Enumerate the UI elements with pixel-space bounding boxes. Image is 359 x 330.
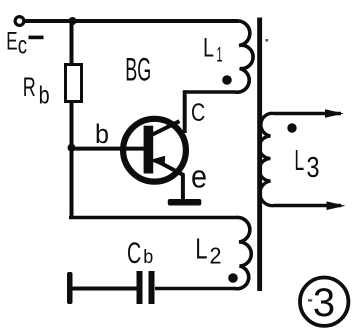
svg-text:2: 2: [210, 242, 222, 268]
svg-text:L: L: [195, 233, 207, 265]
svg-text:L: L: [294, 145, 304, 177]
svg-text:c: c: [18, 32, 27, 60]
svg-text:R: R: [23, 72, 36, 102]
svg-text:1: 1: [217, 44, 223, 67]
svg-text:b: b: [39, 82, 50, 110]
svg-text:E: E: [6, 27, 17, 55]
svg-text:b: b: [143, 247, 153, 268]
svg-text:L: L: [203, 32, 214, 62]
svg-text:b: b: [95, 119, 109, 149]
svg-text:C: C: [191, 99, 205, 127]
svg-text:C: C: [127, 237, 141, 270]
svg-text:3: 3: [307, 152, 320, 184]
svg-text:BG: BG: [125, 52, 151, 88]
svg-text:e: e: [191, 159, 207, 195]
svg-text:3: 3: [313, 281, 335, 325]
